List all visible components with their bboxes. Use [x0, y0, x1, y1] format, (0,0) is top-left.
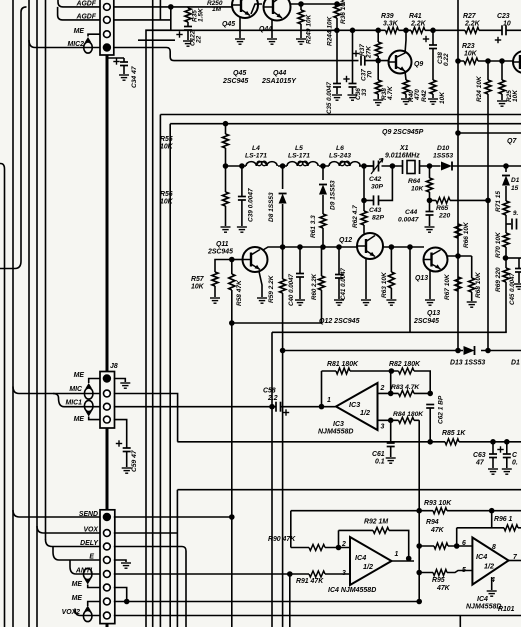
wire R90 row to IC4 pin2: [291, 547, 350, 549]
wire VOX2 from bus: [75, 609, 100, 616]
wire IC4 pin4 to ground: [491, 577, 493, 590]
svg-text:Q13: Q13: [415, 275, 428, 282]
resistor R84 180K: [399, 417, 415, 423]
svg-text:9.: 9.: [513, 210, 518, 217]
svg-text:C44: C44: [405, 209, 418, 216]
svg-text:1SS53: 1SS53: [433, 153, 453, 160]
resistor R82 180K: [399, 368, 415, 374]
wire Q11 collector bus y247: [263, 247, 357, 250]
pin MIC1 (J8 pin3): [104, 403, 111, 410]
wire vertical V458 (top to D13 row): [457, 0, 459, 351]
ground: [183, 41, 193, 46]
wire Q11 emitter to ground: [259, 272, 262, 298]
svg-text:R83 4.7K: R83 4.7K: [391, 384, 420, 391]
svg-text:220: 220: [438, 213, 450, 220]
svg-text:C41 0.0047: C41 0.0047: [340, 267, 347, 300]
svg-text:Q11: Q11: [216, 241, 229, 248]
wire pin2 node up to feedback: [390, 371, 392, 393]
svg-text:ME: ME: [74, 372, 85, 379]
svg-text:2SC945: 2SC945: [207, 249, 233, 256]
resistor R37 27K: [377, 30, 379, 42]
pin AGDF (pin 1): [104, 4, 111, 11]
svg-text:2SC945: 2SC945: [222, 78, 248, 85]
wire lower rail y332 (C58 node to R69): [272, 332, 507, 627]
svg-text:30P: 30P: [371, 184, 383, 191]
svg-text:47K: 47K: [430, 527, 445, 534]
ground: [497, 101, 507, 106]
svg-text:1/2: 1/2: [360, 408, 370, 417]
op-amp IC4 1/2 (second): [472, 538, 508, 585]
svg-text:R249 10K: R249 10K: [306, 13, 313, 44]
wire MIC from bus L2: [13, 387, 100, 394]
diode D10 1SS53: [441, 162, 452, 171]
resistor R94 47K: [434, 543, 448, 549]
resistor R83 4.7K: [399, 390, 415, 396]
svg-text:R36 10K: R36 10K: [340, 0, 347, 24]
capacitor C35 0.0047: [336, 30, 338, 83]
svg-text:L5: L5: [295, 145, 303, 152]
svg-text:R64: R64: [408, 178, 421, 185]
svg-text:10K: 10K: [191, 284, 205, 291]
svg-text:R85 1K: R85 1K: [442, 430, 466, 437]
label Q9 2SC945P: [382, 129, 424, 136]
wire bias rail V419 (R84 down to ME): [418, 420, 420, 601]
resistor R25 10K: [501, 61, 503, 80]
svg-text:ME: ME: [74, 416, 85, 423]
wire stub y40: [138, 39, 175, 41]
wire Q13 emitter to ground: [429, 271, 431, 299]
op-amp IC4 1/2 (first): [350, 537, 392, 585]
svg-text:D13 1SS53: D13 1SS53: [450, 360, 485, 367]
svg-text:R66 10K: R66 10K: [463, 221, 470, 248]
ground: [210, 298, 220, 303]
wire box top y123.7: [170, 124, 521, 627]
resistor R65 220: [430, 199, 489, 201]
resistor R60 2.2K: [319, 276, 325, 290]
svg-text:L4: L4: [252, 145, 260, 152]
ground: [487, 591, 497, 596]
svg-text:2SA1015Y: 2SA1015Y: [261, 78, 297, 85]
ground: [119, 75, 129, 80]
capacitor C62 1 BP: [426, 405, 434, 409]
wire R85 row y441.8 (VOX net): [177, 441, 521, 443]
pin VOX: [104, 530, 111, 537]
resistor R66 10K (on V458): [455, 224, 461, 238]
svg-text:R41: R41: [409, 13, 422, 20]
shield VOX2 cable: [83, 610, 92, 621]
wire VOX to R85 net (up leg): [114, 490, 178, 627]
svg-text:C40 0.0047: C40 0.0047: [288, 273, 295, 306]
svg-text:70: 70: [367, 70, 374, 78]
svg-text:MIC: MIC: [69, 386, 83, 393]
resistor R59 2.2K (on D8 vertical): [282, 247, 284, 279]
capacitor C63 47 (electrolytic): [492, 442, 494, 454]
wire MIC1 shield to pin4: [89, 417, 100, 420]
svg-text:Q45: Q45: [233, 70, 246, 77]
wire pin2 to corner: [114, 7, 171, 30]
ground: [428, 99, 438, 104]
svg-text:22: 22: [196, 35, 203, 44]
svg-text:R62 4.7: R62 4.7: [352, 205, 359, 228]
crystal X1 9.0116MHz: [403, 160, 420, 174]
wire Q44 emitter to ground: [271, 19, 273, 38]
svg-text:3.3K: 3.3K: [383, 21, 399, 28]
svg-text:C23: C23: [497, 13, 510, 20]
svg-text:R91 47K: R91 47K: [296, 578, 324, 585]
resistor R244 10K: [334, 4, 340, 18]
ground: [121, 563, 131, 568]
wire AGDF2 curl: [58, 7, 100, 20]
ground: [425, 227, 435, 232]
inductor L6 LS-243: [329, 162, 360, 166]
resistor R55 10K: [225, 124, 227, 134]
wire R70/R69 node to right edge: [505, 257, 521, 259]
resistor R91 47K: [309, 571, 325, 577]
wire D13 row y350.5: [283, 350, 521, 352]
capacitor C34 47: [107, 55, 124, 74]
capacitor C42 30P (trimmer, series): [374, 161, 379, 172]
svg-text:R39: R39: [381, 13, 394, 20]
svg-text:C59 47: C59 47: [131, 450, 138, 472]
wire bus L2 (full height, branches to MIC and SEND): [12, 0, 14, 627]
svg-text:0.0047: 0.0047: [398, 217, 419, 224]
svg-text:IC3: IC3: [349, 400, 360, 409]
pin SEND: [103, 513, 111, 521]
svg-text:R42: R42: [421, 90, 428, 102]
svg-text:R94: R94: [426, 519, 439, 526]
wire Q12 output y247 to Q13: [383, 246, 424, 248]
svg-text:6: 6: [462, 540, 466, 547]
svg-text:Q12 2SC945: Q12 2SC945: [319, 318, 360, 325]
svg-text:C61: C61: [372, 451, 385, 458]
resistor R41 2.2K: [411, 27, 425, 33]
svg-text:1: 1: [395, 551, 399, 558]
svg-text:10K: 10K: [439, 91, 446, 104]
svg-text:C63: C63: [473, 452, 486, 459]
ground: [257, 298, 267, 303]
svg-text:NJM4558D: NJM4558D: [318, 429, 353, 436]
resistor R92 1M: [373, 527, 389, 533]
wire thick stem between connectors: [106, 428, 109, 510]
label AGDF: [68, 1, 97, 49]
svg-text:47: 47: [475, 460, 485, 467]
capacitor C41 0.0047: [338, 247, 340, 274]
crystal X2 stub (right edge): [506, 223, 511, 225]
diode D13 1SS53: [464, 346, 475, 355]
svg-text:10K: 10K: [512, 89, 519, 102]
resistor R56 10K: [225, 166, 227, 192]
resistor R64 10K: [429, 166, 431, 178]
svg-text:Q45: Q45: [222, 21, 235, 28]
pin E: [104, 557, 111, 564]
op-amp IC3 1/2 (NJM4558D): [336, 383, 378, 430]
wire thick stem below connector: [106, 624, 109, 627]
transistor Q11 2SC945: [243, 247, 268, 272]
transistor Q45 2SC945: [232, 0, 258, 18]
svg-text:10K: 10K: [464, 51, 478, 58]
svg-text:R90 47K: R90 47K: [268, 536, 296, 543]
svg-text:10K: 10K: [411, 186, 424, 193]
wire bus L1 (enters left edge, runs to bottom): [0, 164, 5, 627]
svg-text:MIC1: MIC1: [66, 400, 83, 407]
wire stub V160 top: [159, 0, 161, 20]
wire Q11 base node: [232, 259, 243, 261]
svg-text:2: 2: [341, 541, 346, 548]
pin ME: [104, 598, 111, 605]
svg-text:0.22: 0.22: [443, 53, 450, 66]
svg-text:IC3: IC3: [333, 421, 344, 428]
wire VOX2 rail y615.5: [114, 616, 521, 627]
svg-text:R65: R65: [436, 205, 449, 212]
pin MIC2 (pin 4, filled): [103, 43, 111, 51]
svg-text:2SC945: 2SC945: [413, 318, 439, 325]
wire ME pin3 to MIC2 shield: [88, 34, 100, 36]
wire J8 MIC pin2 joins MIC1 wire: [114, 394, 178, 442]
capacitor C122 22 (electrolytic): [184, 27, 192, 31]
ground: [235, 39, 245, 44]
label R62 4.7: [352, 205, 359, 228]
transistor Q12 2SC945: [357, 233, 383, 259]
capacitor C23 10 (series electrolytic): [502, 25, 506, 35]
svg-text:L6: L6: [336, 145, 344, 152]
label Q12 2SC945: [319, 310, 440, 325]
wire rail y114.5: [160, 115, 521, 627]
resistor R95 47K: [433, 570, 447, 576]
svg-text:Q9: Q9: [414, 61, 423, 68]
svg-text:IC4: IC4: [355, 553, 366, 562]
wire R96 node down leg: [491, 511, 493, 528]
svg-text:D1: D1: [511, 177, 520, 184]
wire R93 row y510.7: [291, 510, 521, 512]
wire rail y133: [458, 132, 521, 134]
wire Q13 collector row y256: [448, 255, 472, 257]
wire IC3 pin3: [378, 419, 420, 421]
pin ME (J8 pin1, filled): [103, 374, 111, 382]
svg-text:C39 0.0047: C39 0.0047: [248, 188, 255, 222]
svg-text:R23: R23: [462, 43, 475, 50]
wire E to ground: [114, 560, 126, 562]
wire IC3 pin2 (inverting input): [378, 392, 431, 394]
svg-text:ME: ME: [72, 581, 83, 588]
resistor R81 180K: [336, 368, 350, 374]
ground: [386, 300, 396, 305]
svg-text:X1: X1: [399, 145, 409, 152]
connector J? top (pins AGDF/AGDF/ME/MIC2): [100, 0, 114, 55]
svg-text:R82 180K: R82 180K: [389, 361, 421, 368]
svg-text:R56: R56: [160, 191, 173, 198]
ground: [332, 95, 342, 100]
pin ME (pin 3): [104, 31, 111, 38]
svg-text:1/2: 1/2: [363, 562, 373, 571]
wire top rail y4: [291, 3, 346, 5]
pin DELY: [104, 543, 111, 550]
svg-text:Q13: Q13: [427, 310, 440, 317]
inductor L4 LS-171: [246, 162, 277, 166]
svg-text:2.2K: 2.2K: [464, 21, 481, 28]
resistor R23 10K: [464, 58, 478, 64]
wire feedback left leg V321: [321, 371, 323, 407]
svg-text:R70 10K: R70 10K: [495, 231, 502, 258]
svg-text:R101: R101: [498, 606, 515, 613]
wire J8 pin1 to MIC shield: [89, 379, 100, 384]
svg-text:R67 10K: R67 10K: [444, 273, 451, 300]
svg-text:R96 1: R96 1: [494, 516, 513, 523]
svg-text:8: 8: [492, 544, 496, 551]
wire W2 rail y489.7: [177, 489, 521, 491]
svg-text:R81 180K: R81 180K: [327, 361, 359, 368]
capacitor C45 0.0047: [518, 258, 520, 268]
wire Q45 collector to top rail: [251, 4, 262, 14]
resistor R63 10K: [390, 247, 392, 272]
svg-text:9.0116MHz: 9.0116MHz: [385, 153, 420, 160]
svg-text:R71 15: R71 15: [495, 191, 502, 212]
svg-text:1: 1: [327, 397, 331, 404]
label R101: [498, 606, 515, 613]
connector bottom (SEND..VOX2): [100, 510, 115, 624]
svg-text:27K: 27K: [366, 45, 373, 59]
connector J8: [100, 372, 115, 429]
wire SEND from bus L2: [13, 510, 100, 517]
capacitor C59 47 (electrolytic): [123, 448, 131, 452]
svg-text:Q12: Q12: [339, 237, 352, 244]
ground: [488, 469, 498, 474]
resistor R96 1M: [504, 525, 518, 531]
svg-text:R55: R55: [160, 136, 173, 143]
resistor R85 1K: [445, 439, 459, 445]
transistor Q7 (clipped at right edge): [513, 51, 521, 73]
capacitor C36 33 (electrolytic): [352, 30, 354, 83]
wire VOX2 shield to ME pin7: [88, 602, 100, 607]
capacitor C39 0.0047: [241, 166, 243, 196]
wire R58 to R60 link: [232, 290, 322, 323]
resistor R90 47K: [309, 545, 325, 551]
svg-text:Q9 2SC945P: Q9 2SC945P: [382, 129, 424, 136]
svg-text:0.: 0.: [512, 460, 518, 467]
svg-text:R69 220: R69 220: [495, 267, 502, 292]
svg-text:NJM4558D: NJM4558D: [466, 604, 501, 611]
svg-text:R57: R57: [191, 276, 205, 283]
svg-text:ME: ME: [72, 595, 83, 602]
wire bus V152 (full height): [152, 0, 154, 627]
wire Q12 emitter to ground: [365, 259, 367, 300]
svg-text:33: 33: [361, 88, 368, 96]
resistor R57 10K: [215, 260, 232, 273]
ground: [386, 458, 396, 463]
transistor Q9 2SC945P: [389, 51, 412, 74]
capacitor C61 0.1: [390, 420, 392, 442]
svg-text:1M: 1M: [212, 6, 222, 13]
svg-text:ME: ME: [74, 28, 85, 35]
ground: [425, 300, 435, 305]
resistor R35 1.5K: [187, 7, 189, 8]
wire Q12 collector to lower rail: [409, 247, 411, 332]
wire ME rail y601.5: [114, 601, 419, 603]
transistor Q13 2SC945: [424, 248, 448, 272]
svg-text:R84 180K: R84 180K: [393, 411, 424, 418]
wire MIC2 pin to Q9 preamp (step down): [114, 48, 359, 61]
shield MIC1 cable: [84, 400, 93, 411]
resistor R38 4.7K: [377, 61, 379, 80]
wire IC3 feedback y371: [322, 371, 431, 393]
resistor R40 470 (Q9 emitter): [405, 71, 406, 80]
svg-text:Q7: Q7: [507, 138, 517, 145]
ground: [514, 284, 521, 289]
wire MIC2 from bus L4: [29, 40, 100, 48]
svg-text:10K: 10K: [160, 144, 174, 151]
wire R94 row to IC4 pin6: [419, 545, 472, 547]
wire J8 pin1 to ground: [114, 379, 126, 383]
svg-text:IC4: IC4: [476, 552, 487, 561]
resistor R67 10K (on V458): [455, 277, 461, 291]
svg-text:10K: 10K: [160, 199, 174, 206]
ground: [122, 468, 132, 473]
wire Q9 collector: [405, 30, 406, 53]
svg-text:470: 470: [414, 89, 421, 101]
ground: [295, 300, 305, 305]
svg-text:R59 2.2K: R59 2.2K: [268, 274, 275, 303]
wire ME pin6 right leg: [114, 588, 127, 602]
svg-text:R92 1M: R92 1M: [364, 519, 388, 526]
capacitor C40 0.0047: [299, 247, 301, 273]
ground: [373, 100, 383, 105]
wire R23 row y61: [458, 60, 513, 62]
inductor L5 LS-171: [287, 162, 318, 166]
wire MIC1 branch: [53, 394, 100, 407]
capacitor C38 0.22 + resistor R42 10K: [432, 30, 434, 44]
diode D8 1SS53 (on Q11 collector vertical): [282, 166, 284, 189]
svg-text:3: 3: [381, 424, 385, 431]
wire filter chain y166: [226, 165, 521, 167]
svg-text:2: 2: [380, 385, 385, 392]
wire V289 down: [289, 574, 291, 627]
svg-text:C62 1 BP: C62 1 BP: [438, 395, 445, 424]
svg-text:R63 10K: R63 10K: [381, 271, 388, 298]
svg-text:D10: D10: [437, 145, 450, 152]
wire corner to V146: [146, 30, 171, 627]
wire IC4 output pin1: [392, 560, 415, 562]
svg-text:C43: C43: [369, 207, 382, 214]
svg-text:R93 10K: R93 10K: [424, 500, 452, 507]
svg-text:C35 0.0047: C35 0.0047: [326, 81, 333, 114]
resistor R58 47K (on V231): [231, 260, 233, 275]
pin ME (J8 pin4): [104, 416, 111, 423]
svg-text:C42: C42: [369, 176, 382, 183]
ground: [296, 39, 306, 44]
svg-text:10: 10: [503, 21, 511, 28]
wire AGDF1 from top edge: [58, 0, 100, 7]
resistor R39 3.3K: [386, 27, 399, 33]
ground: [221, 227, 231, 232]
svg-text:D9 1SS53: D9 1SS53: [330, 180, 337, 210]
wire node AGDF to R35 junction: [114, 6, 232, 8]
ground: [401, 99, 411, 104]
svg-text:Q44: Q44: [273, 70, 286, 77]
shield MIC cable: [84, 388, 93, 399]
svg-text:1/2: 1/2: [484, 562, 494, 571]
wire V282 down to page bottom: [282, 351, 284, 627]
svg-text:1.5K: 1.5K: [198, 7, 205, 22]
svg-text:2.2K: 2.2K: [410, 21, 427, 28]
wire thick stem above J8: [106, 55, 109, 372]
capacitor C64 (electrolytic, right edge): [506, 442, 508, 454]
label Q45: [222, 21, 272, 33]
wire ANTI row y574 to IC4 pin3: [114, 573, 350, 575]
wire ANTI from bus: [70, 560, 100, 574]
svg-text:4.7K: 4.7K: [387, 85, 394, 101]
wire VOX from bus L5: [37, 526, 100, 533]
svg-text:LS-243: LS-243: [329, 153, 351, 160]
svg-text:IC4: IC4: [477, 596, 488, 603]
